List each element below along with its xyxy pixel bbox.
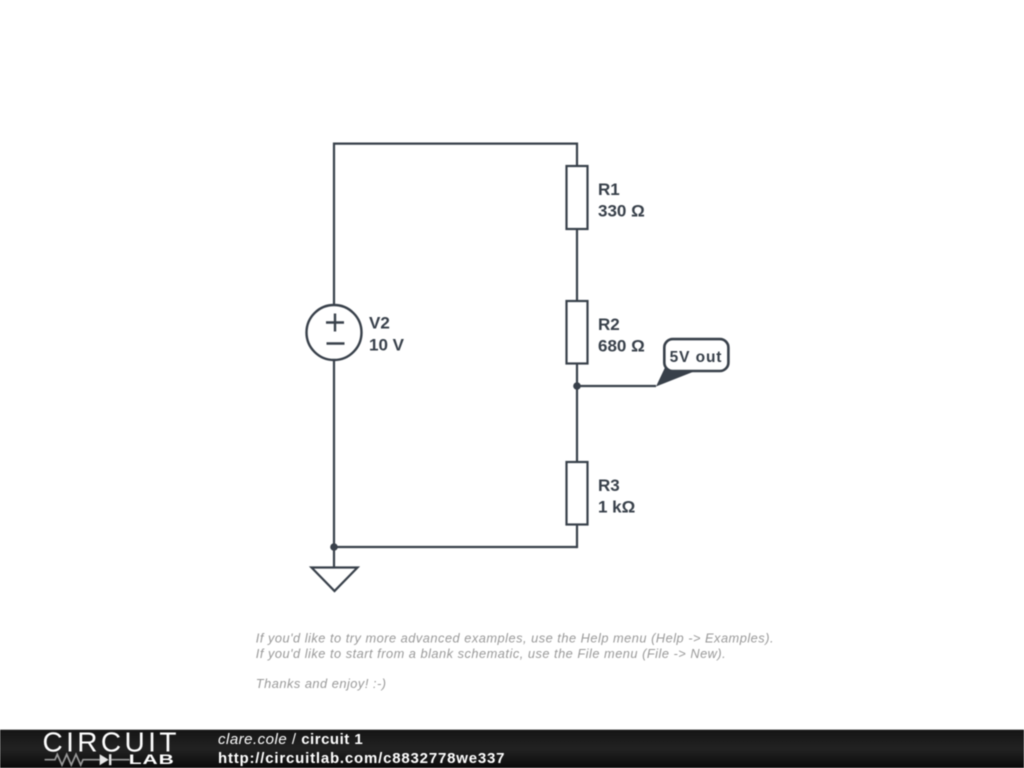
logo glyph: diode — [100, 754, 130, 765]
svg-text:If you'd like to try more adva: If you'd like to try more advanced examp… — [256, 631, 774, 646]
svg-text:R2: R2 — [598, 315, 620, 334]
wire: top horizontal from V2 to R1 — [334, 143, 577, 145]
resistor R2 — [567, 301, 588, 364]
node: junction at bottom left — [330, 543, 338, 551]
footer bar — [0, 730, 1024, 768]
svg-text:5V out: 5V out — [670, 349, 723, 366]
wire: from V2 minus terminal down to ground junction — [333, 360, 335, 547]
svg-text:10 V: 10 V — [369, 336, 405, 355]
node: 5V output junction — [573, 382, 581, 390]
svg-text:V2: V2 — [369, 314, 390, 333]
label V2 10 V — [369, 314, 405, 355]
svg-text:R1: R1 — [598, 180, 620, 199]
svg-text:680 Ω: 680 Ω — [598, 336, 645, 355]
resistor R1 — [567, 166, 588, 229]
wire: left vertical from top corner to V2 plus terminal — [333, 143, 335, 306]
resistor R3 — [567, 462, 588, 525]
callout tail — [656, 368, 694, 387]
label R2 680 ohm — [598, 315, 645, 356]
wire: R1 to R2 — [576, 229, 578, 301]
wire: output node to callout — [577, 385, 656, 387]
label R3 1 kohm — [598, 476, 635, 517]
svg-text:If you'd like to start from a: If you'd like to start from a blank sche… — [256, 646, 726, 661]
wire: R3 to bottom corner — [576, 525, 578, 549]
svg-text:clare.cole / circuit 1: clare.cole / circuit 1 — [218, 731, 363, 748]
ground — [312, 547, 358, 591]
svg-text:http://circuitlab.com/c8832778: http://circuitlab.com/c8832778we337 — [218, 750, 505, 767]
logo glyph: resistor zigzag — [45, 754, 100, 765]
wire: R2 down through output node to R3 — [576, 364, 578, 463]
svg-text:LAB: LAB — [129, 751, 175, 767]
wire: bottom horizontal from junction to R3 — [334, 546, 577, 548]
wire: from top corner down to R1 — [576, 143, 578, 167]
svg-text:330 Ω: 330 Ω — [598, 201, 645, 220]
callout bubble 5V out — [664, 339, 728, 371]
svg-text:Thanks and enjoy! :-): Thanks and enjoy! :-) — [256, 676, 387, 691]
svg-text:R3: R3 — [598, 476, 620, 495]
label R1 330 ohm — [598, 180, 645, 221]
svg-text:1 kΩ: 1 kΩ — [598, 497, 635, 516]
note: help text — [256, 631, 774, 691]
voltage source V2 — [307, 305, 362, 360]
